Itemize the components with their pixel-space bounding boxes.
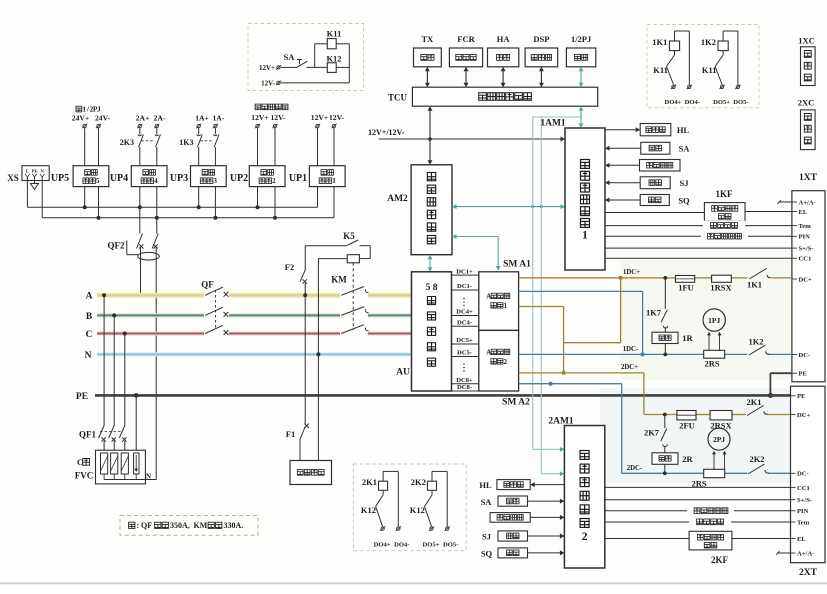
svg-text:S+/S-: S+/S-: [797, 497, 812, 504]
wire A drop to QF1: [103, 295, 105, 425]
svg-text:N: N: [85, 351, 92, 361]
svg-text:2A-: 2A-: [154, 114, 166, 123]
wire 1DC+ brown: [519, 277, 676, 279]
door sensor SQ: [608, 199, 640, 201]
svg-text:EL: EL: [799, 209, 808, 216]
svg-text:AM2: AM2: [387, 194, 408, 204]
svg-text:12V-: 12V-: [261, 80, 276, 88]
svg-text:2K1: 2K1: [746, 397, 761, 407]
svg-text:1XC: 1XC: [798, 36, 815, 46]
terminal 1XT CC1: [792, 257, 797, 259]
arrow TCU to power control module: [429, 109, 431, 162]
terminal 1XT S+/S-: [792, 247, 797, 249]
stub A+/A- 2XT: [777, 552, 791, 554]
svg-text:1: 1: [504, 303, 508, 310]
wire DC1- AU to switch module: [452, 289, 479, 291]
svg-text:K12: K12: [326, 54, 341, 64]
svg-text:1K3: 1K3: [179, 138, 193, 147]
dashed link K5 coil to KM: [352, 263, 354, 330]
svg-text:QF1: QF1: [79, 430, 96, 440]
teal arrow TCU to 1AM1: [580, 109, 582, 126]
ellipsis dots: [463, 298, 465, 300]
svg-text:1K1: 1K1: [747, 280, 762, 290]
svg-text:2XC: 2XC: [798, 98, 815, 108]
terminal 2XT PIN: [791, 510, 796, 512]
wire K12 to right riser: [336, 66, 349, 68]
stub A+/A- 1XT: [779, 201, 792, 203]
svg-text:SQ: SQ: [481, 549, 493, 559]
svg-text:PE: PE: [32, 168, 38, 173]
svg-text:1K2: 1K2: [748, 337, 763, 347]
wire K5 coil to N drop: [318, 258, 347, 260]
svg-text:330A.: 330A.: [224, 521, 244, 530]
wire 12V+ to SA: [281, 66, 297, 68]
terminal 2XT Tem: [791, 521, 796, 523]
svg-text:FCR: FCR: [457, 34, 475, 44]
fuse 1FU: [675, 276, 694, 283]
svg-text:1K2: 1K2: [701, 37, 716, 47]
terminal 1XT DC+: [792, 278, 797, 280]
terminals above UP5: [83, 124, 86, 127]
wire K11 to right riser: [336, 43, 349, 45]
note box QF/KM selection: [120, 516, 258, 536]
terminal 1XT PE: [792, 372, 797, 374]
holster status 2: [530, 516, 561, 518]
electronic lock interface board 2KF: [605, 538, 689, 540]
emergency stop SA: [608, 147, 641, 149]
svg-text:DO5-: DO5-: [733, 99, 748, 106]
svg-text:DO5+: DO5+: [423, 542, 440, 549]
svg-text:K12: K12: [361, 505, 376, 515]
svg-text:K11: K11: [702, 65, 717, 75]
shunt 2RS on 1DC-: [704, 350, 725, 358]
terminal 1XT A+/A-: [792, 201, 797, 203]
svg-text:12V-: 12V-: [270, 113, 286, 122]
svg-text:J: J: [97, 105, 101, 114]
svg-text:2: 2: [504, 359, 508, 366]
wires UP2 top pins: [257, 128, 259, 166]
svg-text:C: C: [86, 330, 93, 340]
current transformer ellipse on QF2: [138, 252, 160, 260]
terminal 2XT EL: [791, 538, 796, 540]
svg-text:2RS: 2RS: [704, 359, 719, 369]
svg-text:350A,: 350A,: [170, 521, 190, 530]
wire L-bus: [27, 206, 317, 208]
svg-text:12V+: 12V+: [259, 64, 275, 72]
ground symbol: [34, 181, 36, 184]
svg-text:2KF: 2KF: [711, 555, 729, 565]
fuse 2FU: [677, 411, 696, 420]
wires UP4 bottom pins: [139, 187, 141, 208]
svg-text:1R: 1R: [682, 333, 693, 343]
svg-text:12V+/12V-: 12V+/12V-: [368, 128, 405, 137]
svg-text:12V+: 12V+: [251, 113, 268, 122]
wire QF2 left leg to phase A: [140, 248, 142, 296]
svg-text:TCU: TCU: [388, 93, 408, 103]
terminal 2XT S+/S-: [791, 499, 796, 501]
lock status row 2: [605, 510, 791, 512]
wire N-bus: [42, 217, 334, 219]
resistor 2RSX: [710, 411, 732, 420]
wire PE drop to FVC: [135, 395, 137, 453]
wire DC4+ AU to switch module: [452, 315, 479, 317]
svg-text:1K1: 1K1: [652, 37, 667, 47]
svg-text:QF: QF: [141, 521, 152, 530]
terminal 12V+: [277, 66, 280, 69]
wire 12V to charge controller 1: [379, 138, 565, 140]
node riser to K11: [314, 44, 316, 68]
wire right riser down to 12V-: [348, 44, 350, 83]
terminals above UP1: [316, 124, 319, 127]
svg-text:UP1: UP1: [289, 173, 307, 184]
svg-text:1RSX: 1RSX: [710, 283, 732, 293]
svg-text:K5: K5: [343, 231, 355, 241]
svg-text:PE: PE: [799, 371, 808, 378]
svg-text:1A-: 1A-: [212, 114, 224, 123]
A-type switch module 2 SM A2: [479, 330, 519, 391]
svg-text:SA: SA: [679, 144, 691, 154]
wire DC5- AU to switch module: [452, 356, 479, 358]
svg-text:1A+: 1A+: [195, 114, 209, 123]
terminals above UP4: [138, 124, 141, 127]
svg-text:2DC+: 2DC+: [621, 364, 638, 371]
temperature sampling row: [605, 225, 792, 227]
svg-text:12V-: 12V-: [329, 113, 345, 122]
svg-text:EL: EL: [797, 536, 806, 543]
wire CC1 row: [605, 257, 792, 259]
wire DC1+ AU to switch module: [452, 274, 479, 276]
wire CC1 row 2: [605, 486, 791, 488]
svg-text:24V+: 24V+: [72, 114, 89, 123]
terminal 1XT EL: [792, 211, 797, 213]
svg-text:DO4-: DO4-: [394, 542, 409, 549]
wires UP5 top pins: [84, 128, 86, 166]
terminals above UP2: [256, 124, 259, 127]
svg-text:1: 1: [332, 177, 336, 185]
bottom border line: [0, 582, 827, 584]
svg-text:12V+: 12V+: [311, 113, 328, 122]
svg-text:UP5: UP5: [51, 173, 69, 184]
svg-text:2K2: 2K2: [411, 477, 426, 487]
svg-text:KM: KM: [194, 521, 208, 530]
svg-text:AU: AU: [396, 368, 410, 378]
svg-text:B: B: [86, 312, 93, 322]
svg-text:QF2: QF2: [108, 241, 125, 251]
svg-text:DC1+: DC1+: [456, 268, 473, 275]
svg-text:F2: F2: [285, 262, 294, 272]
wire 1DC- steel: [519, 353, 704, 355]
svg-text:DC4+: DC4+: [456, 309, 473, 316]
terminal 2XT CC1: [791, 486, 796, 488]
wire DC8- AU to switch module: [452, 390, 479, 392]
holster status box: [608, 164, 640, 166]
shunt 2RS on 2DC-: [704, 469, 725, 477]
teal link AM2 to switch module SM A1: [452, 236, 498, 238]
wire XS N to N-bus: [41, 181, 43, 218]
wire B drop to QF1: [113, 315, 115, 425]
energy meter 1PJ: [703, 309, 725, 331]
terminal 1XT DC-: [792, 353, 797, 355]
wire C drop to QF1: [124, 334, 126, 426]
wire QF2 right leg to N: [155, 248, 157, 355]
svg-text:SQ: SQ: [678, 196, 690, 206]
wire 2DC+ olive: [519, 372, 644, 374]
svg-text:DO5-: DO5-: [443, 542, 458, 549]
svg-text:DC+: DC+: [799, 276, 813, 283]
wires UP5 bottom pins: [84, 187, 86, 208]
svg-text:1DC-: 1DC-: [623, 346, 639, 353]
svg-text:DC4-: DC4-: [457, 320, 472, 327]
svg-text:K11: K11: [327, 29, 342, 39]
wire DC5+ AU to switch module: [452, 343, 479, 345]
arrow link device to TCU: [465, 70, 467, 85]
teal control verticals to 2AM1: [532, 117, 534, 449]
svg-text:1AM1: 1AM1: [540, 119, 566, 129]
arrester common bar: [104, 479, 156, 481]
wire DC4- AU to switch module: [452, 325, 479, 327]
dashed inset box 1K1-1K2: [647, 25, 759, 108]
svg-text:2: 2: [582, 531, 588, 543]
dashed inset box 2K1-2K2: [353, 464, 466, 551]
arrow link device to TCU: [502, 70, 504, 85]
wire XS L to L-bus: [26, 181, 28, 208]
contact 2K7 and bleed resistor 2R: [663, 413, 667, 417]
wire 2DC- steel: [519, 383, 622, 385]
svg-text:5 8: 5 8: [426, 283, 438, 293]
svg-text:CC1: CC1: [797, 485, 810, 492]
svg-text:DO4+: DO4+: [374, 542, 391, 549]
svg-text:SA: SA: [284, 52, 296, 62]
svg-text:1DC+: 1DC+: [623, 269, 640, 276]
svg-text:DC5+: DC5+: [456, 337, 473, 344]
wire SA to node: [307, 66, 328, 68]
svg-text::: :: [137, 521, 140, 530]
svg-text:CC1: CC1: [799, 256, 812, 263]
wire S row: [605, 247, 792, 249]
svg-text:L: L: [26, 168, 29, 173]
svg-text:2FU: 2FU: [679, 421, 695, 431]
energy meter 2PJ: [708, 428, 730, 450]
teal link AM2 to AU: [429, 257, 431, 270]
svg-text:A: A: [486, 349, 491, 356]
svg-text:SM A1: SM A1: [503, 260, 531, 270]
svg-text:SJ: SJ: [680, 178, 690, 188]
svg-text:1: 1: [82, 105, 86, 114]
svg-text:2K7: 2K7: [644, 428, 660, 438]
svg-text:24V-: 24V-: [95, 114, 111, 123]
terminals above UP3: [197, 124, 200, 127]
svg-text:2K2: 2K2: [749, 454, 764, 464]
svg-text:PIN: PIN: [799, 234, 811, 241]
svg-text:1FU: 1FU: [678, 283, 694, 293]
contact 1K7 and bleed resistor 1R: [663, 276, 667, 280]
svg-text:K11: K11: [653, 65, 668, 75]
svg-text:XS: XS: [7, 173, 19, 183]
wire N drop to cooling system: [317, 354, 319, 460]
svg-text:HL: HL: [677, 125, 690, 135]
relay coil K5: [347, 255, 359, 263]
svg-text:DC8-: DC8-: [457, 384, 472, 391]
wire S row 2: [605, 499, 791, 501]
resistor 1RSX: [712, 275, 732, 282]
svg-text:DO4-: DO4-: [685, 99, 700, 106]
svg-text:PE: PE: [76, 392, 88, 402]
svg-text:2K1: 2K1: [362, 477, 377, 487]
terminal 1XT Tem: [792, 225, 797, 227]
wire module1 out2 steel blue: [519, 290, 643, 292]
svg-text:UP4: UP4: [110, 173, 128, 184]
wires UP3 bottom pins: [198, 187, 200, 208]
wires UP2 bottom pins: [257, 187, 259, 208]
temperature sampling row 2: [605, 521, 791, 523]
terminal block 2XT: [791, 386, 826, 563]
label to switch-module: [255, 104, 261, 110]
svg-text:1XT: 1XT: [799, 173, 818, 183]
svg-text:SJ: SJ: [482, 532, 492, 542]
svg-text:DC-: DC-: [797, 471, 809, 478]
svg-text:PE: PE: [797, 393, 806, 400]
svg-text:HL: HL: [479, 480, 492, 490]
svg-text:DC+: DC+: [797, 412, 811, 419]
svg-text:Tem: Tem: [799, 223, 812, 230]
svg-text:SA: SA: [481, 497, 493, 507]
terminal 2XT DC-: [791, 472, 796, 474]
svg-text:PIN: PIN: [797, 508, 809, 515]
svg-text:2K3: 2K3: [120, 138, 134, 147]
terminal 2XT PE: [791, 395, 796, 397]
lock status row: [605, 235, 792, 237]
svg-text:DSP: DSP: [533, 34, 549, 44]
svg-text:1/2PJ: 1/2PJ: [571, 34, 592, 44]
indicator HL: [605, 129, 637, 131]
svg-text:A+/A-: A+/A-: [799, 199, 816, 206]
arrow link meter to TCU teal: [580, 70, 582, 85]
svg-text:A+/A-: A+/A-: [797, 550, 814, 557]
svg-text:A: A: [86, 292, 93, 302]
svg-text:HA: HA: [497, 34, 511, 44]
svg-text:4: 4: [154, 177, 158, 185]
svg-text:2DC-: 2DC-: [627, 465, 643, 472]
arrow link device to TCU: [426, 70, 428, 85]
svg-text:2PJ: 2PJ: [713, 435, 725, 444]
svg-text:A: A: [486, 293, 491, 300]
svg-text:3: 3: [213, 177, 217, 185]
terminal 2XT A+/A-: [791, 552, 796, 554]
svg-text:SM A2: SM A2: [502, 398, 530, 408]
svg-text:2A+: 2A+: [136, 114, 150, 123]
svg-text:FVC: FVC: [75, 471, 94, 481]
svg-text:KM: KM: [331, 275, 347, 285]
arrow link device to TCU: [540, 70, 542, 85]
svg-text:DO4+: DO4+: [665, 99, 682, 106]
water sensor SJ: [608, 182, 640, 184]
svg-text:1: 1: [582, 229, 588, 241]
svg-text:TX: TX: [421, 34, 434, 44]
svg-text:K12: K12: [410, 505, 425, 515]
wire DC8+ AU to switch module: [452, 383, 479, 385]
wire module1 out3 olive: [519, 306, 564, 308]
terminal 12V-: [277, 81, 280, 84]
svg-text:DC8+: DC8+: [456, 377, 473, 384]
wire A to K5: [304, 283, 306, 295]
label to 1/2PJ: [76, 106, 82, 112]
svg-text:1PJ: 1PJ: [708, 316, 720, 325]
teal bus link AM2 to 1AM1: [452, 206, 565, 208]
svg-text:DO5+: DO5+: [713, 99, 730, 106]
svg-text:QF: QF: [201, 280, 214, 290]
svg-text:C: C: [77, 458, 83, 467]
svg-text:UP3: UP3: [170, 173, 188, 184]
svg-text:2: 2: [272, 177, 276, 185]
svg-text:1KF: 1KF: [716, 189, 734, 199]
svg-text:5: 5: [96, 177, 100, 185]
cooling system box: [290, 461, 332, 485]
arrester N element: [134, 453, 139, 474]
svg-text:DC-: DC-: [799, 352, 811, 359]
wire PE to 1XT: [769, 373, 771, 395]
wires UP1 top pins: [317, 128, 319, 166]
svg-text:Tem: Tem: [797, 519, 810, 526]
svg-text:F1: F1: [286, 429, 295, 439]
svg-text:S+/S-: S+/S-: [799, 246, 814, 253]
svg-text:UP2: UP2: [230, 173, 248, 184]
svg-text:2R: 2R: [682, 454, 693, 464]
svg-text:1K7: 1K7: [646, 308, 662, 318]
svg-text:DC5-: DC5-: [457, 350, 472, 357]
svg-text:DC1-: DC1-: [457, 283, 472, 290]
wires UP1 bottom pins: [317, 187, 319, 208]
svg-text:2XT: 2XT: [799, 568, 818, 578]
terminal 1XT PIN: [792, 235, 797, 237]
terminal 2XT DC+: [791, 414, 796, 416]
wire K5 row: [305, 245, 346, 247]
dashed inset box SA-K11-K12: [248, 24, 364, 91]
